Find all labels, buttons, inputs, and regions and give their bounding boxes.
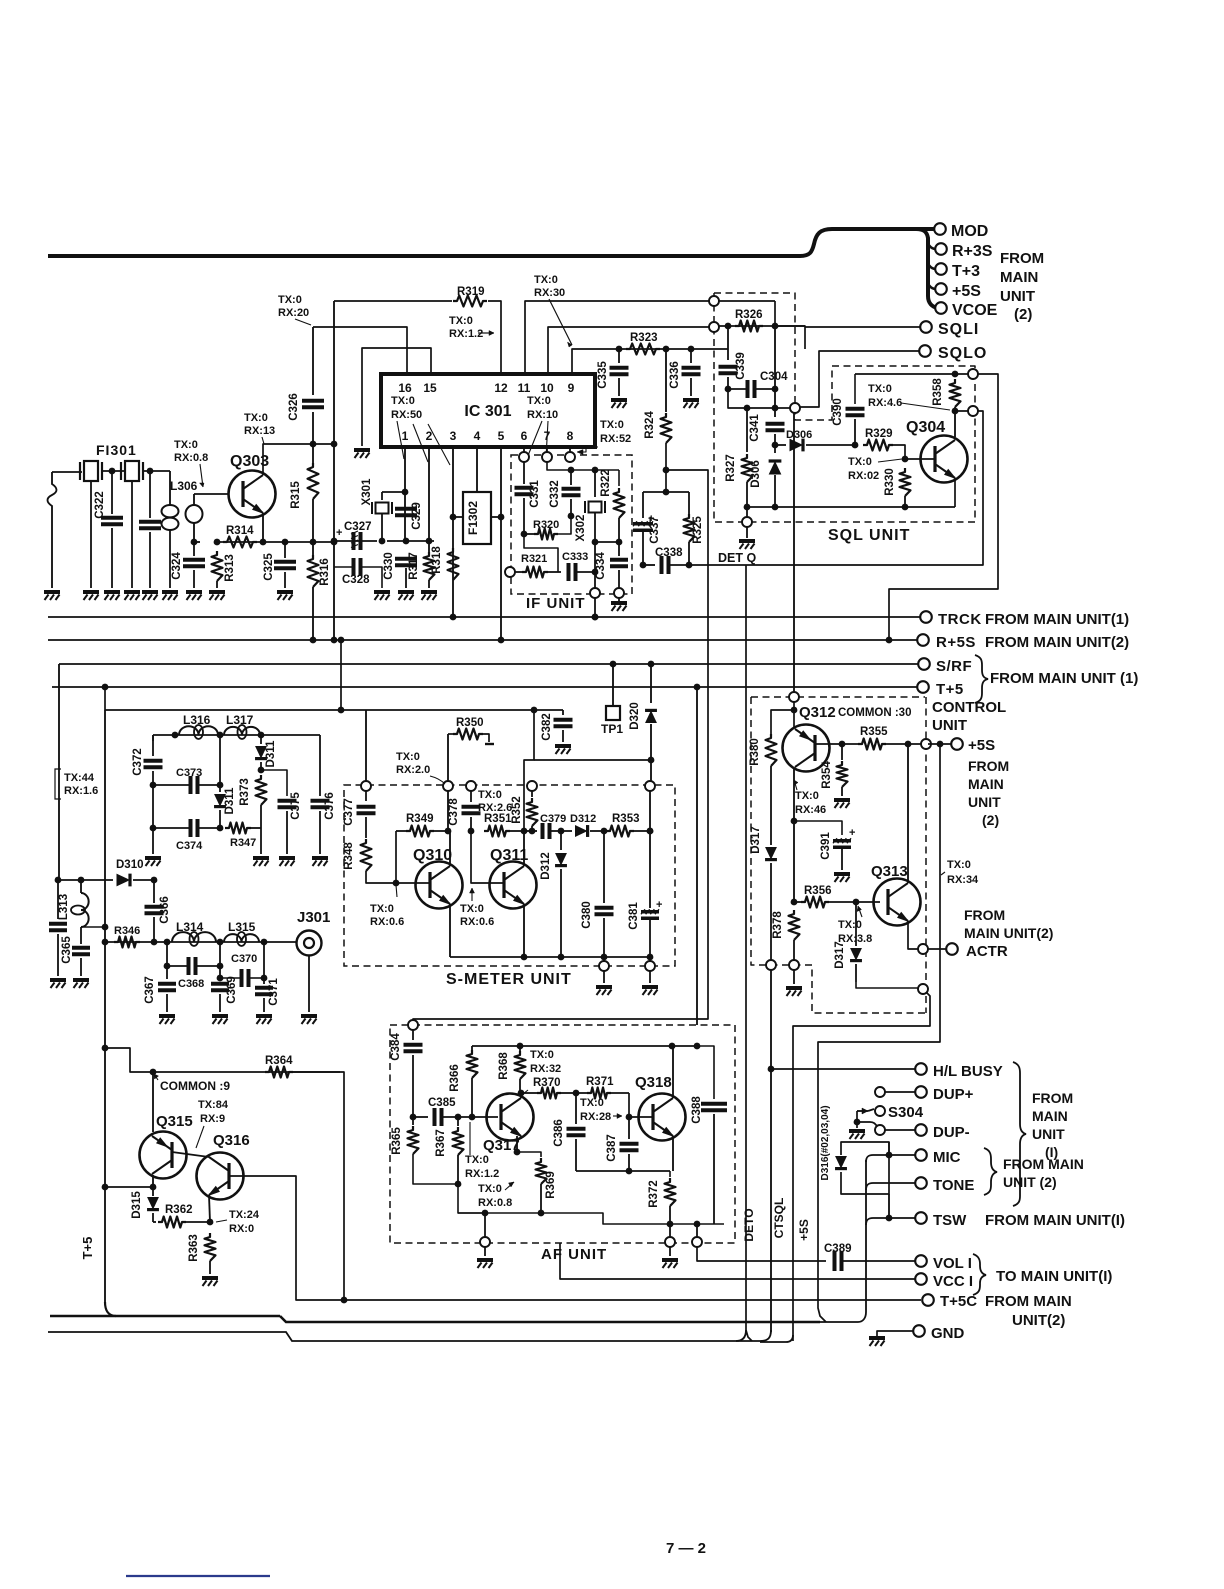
svg-text:COMMON :9: COMMON :9: [160, 1079, 230, 1093]
capacitor C326 on column: [312, 327, 314, 395]
terminal MIC: [915, 1149, 927, 1161]
svg-text:Q313: Q313: [871, 863, 908, 880]
wire X302/R322 bottom row: [595, 541, 619, 543]
svg-text:J301: J301: [297, 909, 330, 926]
svg-text:Q316: Q316: [213, 1132, 250, 1149]
capacitor C335: [618, 349, 620, 363]
resistor R314: [223, 537, 257, 548]
svg-text:S304: S304: [888, 1104, 924, 1121]
terminal ACTR: [946, 943, 958, 955]
capacitor C371: [263, 942, 265, 978]
wire pin7 row to R322: [571, 469, 619, 471]
wire AF bottom rail: [458, 1213, 724, 1224]
ground input: [44, 590, 60, 594]
svg-text:R325: R325: [692, 516, 704, 544]
svg-text:Q310: Q310: [413, 847, 452, 864]
node R353/C381 circle: [645, 781, 655, 791]
wire C391 branch: [794, 821, 842, 835]
wire pin2 column: [428, 447, 430, 541]
resistor R329: [863, 440, 893, 451]
svg-text:S-METER UNIT: S-METER UNIT: [446, 971, 572, 988]
svg-text:C381: C381: [628, 902, 640, 930]
node AF input circle: [408, 1020, 418, 1030]
capacitor C372: [152, 735, 154, 756]
wire DETO vertical: [746, 565, 752, 1341]
svg-text:R362: R362: [165, 1204, 193, 1216]
svg-text:L313: L313: [58, 894, 70, 920]
svg-text:VCOE: VCOE: [952, 302, 998, 319]
svg-text:R358: R358: [932, 378, 944, 406]
wire Q316 base output: [229, 1176, 921, 1300]
capacitor C330: [395, 557, 417, 561]
node bottom circle 1: [603, 957, 605, 962]
inductor L314: [172, 932, 216, 942]
wire Q317 emitter: [516, 1136, 518, 1152]
terminal SQLI: [920, 321, 932, 333]
wire Q310 base: [396, 882, 430, 884]
resistor R326: [735, 321, 763, 332]
diode D306 vertical: [774, 445, 776, 453]
wire Q316 emitter: [209, 1195, 210, 1222]
wire DUP+ pair: [875, 1087, 885, 1097]
capacitor C304: [746, 380, 750, 398]
capacitor C334: [610, 558, 628, 562]
svg-text:Q312: Q312: [799, 704, 836, 721]
svg-text:C389: C389: [824, 1243, 852, 1255]
transistor Q310: [416, 862, 463, 909]
resistor R373: [256, 775, 267, 805]
control unit dashed outline: [751, 696, 925, 698]
diode D317 first: [770, 766, 772, 845]
svg-text:C384: C384: [390, 1033, 402, 1061]
wire T+5 feed AF: [696, 687, 698, 1025]
svg-text:RX:0.8: RX:0.8: [478, 1197, 512, 1209]
wire pin6 to IF: [523, 447, 525, 452]
svg-text:R313: R313: [224, 554, 236, 582]
wire R364 to T+5C: [293, 1072, 344, 1300]
svg-text:R350: R350: [456, 717, 484, 729]
wire R349 riser: [447, 734, 449, 781]
svg-text:X302: X302: [575, 515, 587, 542]
svg-text:IC 301: IC 301: [464, 403, 511, 420]
inductor L306 secondary winding: [193, 494, 195, 505]
svg-text:C375: C375: [290, 792, 302, 820]
wire VOL I: [843, 1260, 915, 1262]
resistor R354: [841, 744, 843, 760]
svg-text:L306: L306: [170, 479, 198, 493]
wire DETO bottom: [736, 1330, 746, 1341]
resistor R322: [618, 470, 620, 486]
svg-text:C371: C371: [268, 978, 280, 1006]
svg-text:C374: C374: [176, 840, 203, 852]
wire IF output column: [594, 542, 596, 589]
resistor R330: [900, 468, 911, 496]
svg-text:COMMON :30: COMMON :30: [838, 707, 911, 719]
svg-text:TX:44: TX:44: [64, 772, 95, 784]
svg-text:C372: C372: [132, 748, 144, 776]
wire Q315 base to Q316 collector: [172, 1152, 209, 1157]
ground GND terminal: [877, 1331, 884, 1336]
capacitor C366: [153, 880, 155, 903]
wire TONE row: [866, 1183, 915, 1190]
AF unit dashed box: [390, 1025, 735, 1243]
svg-text:RX:32: RX:32: [530, 1063, 561, 1075]
svg-text:R320: R320: [533, 519, 559, 531]
svg-text:RX:1.2: RX:1.2: [465, 1168, 499, 1180]
svg-text:R+3S: R+3S: [952, 243, 993, 260]
svg-text:C391: C391: [820, 832, 832, 860]
svg-text:12: 12: [494, 381, 508, 395]
wire GND lead: [884, 1330, 913, 1332]
svg-text:TX:0: TX:0: [465, 1154, 489, 1166]
resistor R351: [484, 826, 510, 837]
node AF bottom circle1: [484, 1213, 486, 1238]
svg-text:R352: R352: [511, 796, 523, 824]
crystal filter FI301 element 1: [84, 461, 98, 481]
svg-text:R373: R373: [239, 778, 251, 806]
svg-text:C329: C329: [411, 502, 423, 530]
svg-text:RX:0.6: RX:0.6: [460, 916, 494, 928]
svg-text:C386: C386: [553, 1119, 565, 1147]
capacitor C365b: [80, 927, 82, 942]
wire branch +5S: [928, 284, 936, 289]
diode D311 first: [219, 735, 221, 785]
node circle bottom control: [918, 984, 928, 994]
wire C378 to Q311 base: [471, 831, 504, 883]
wire between crystals: [102, 470, 124, 472]
transistor Q316: [197, 1153, 244, 1200]
resistor R358: [950, 379, 961, 407]
capacitor C365 left: [57, 880, 59, 919]
svg-text:C335: C335: [597, 361, 609, 389]
leader lines pins 1-3: [397, 421, 404, 459]
wire D311b to C375: [261, 770, 287, 796]
wire pin 11 to top: [525, 301, 709, 374]
wire bottom bend up x865: [818, 1160, 866, 1322]
wire L313 bottom: [81, 926, 105, 928]
svg-text:TX:0: TX:0: [478, 1183, 502, 1195]
wire C386/C387 bottom row: [576, 1170, 670, 1172]
capacitor C380: [603, 831, 605, 903]
svg-text:RX:46: RX:46: [795, 804, 826, 816]
transistor Q312: [783, 725, 830, 772]
svg-text:+5S: +5S: [952, 283, 981, 300]
terminal GND: [913, 1325, 925, 1337]
svg-text:TX:0: TX:0: [580, 1097, 604, 1109]
wire C331 to R321 row: [524, 534, 558, 572]
svg-text:FROM MAIN UNIT (1): FROM MAIN UNIT (1): [990, 670, 1138, 687]
wire D320 to circle: [534, 759, 651, 761]
svg-text:15: 15: [423, 381, 437, 395]
wire CTSQL bottom bend: [760, 1335, 793, 1342]
wire R323 row: [616, 348, 728, 350]
resistor R320: [524, 533, 535, 535]
svg-text:D317: D317: [834, 941, 846, 969]
node pin8 entry: [565, 452, 575, 462]
wire AF input row: [413, 1116, 428, 1118]
svg-text:IF UNIT: IF UNIT: [526, 595, 586, 612]
wire Q313 collector: [907, 744, 909, 883]
node SQL entry upper: [709, 296, 719, 306]
wire T+5 bottom bend: [105, 1302, 116, 1316]
svg-text:R356: R356: [804, 885, 832, 897]
svg-text:RX:28: RX:28: [580, 1111, 611, 1123]
node C378 circle: [466, 781, 476, 791]
transistor Q303: [229, 471, 276, 518]
diode D312 horizontal: [561, 830, 572, 832]
crystal filter FI301 element 2: [125, 461, 139, 481]
svg-text:RX:34: RX:34: [947, 874, 979, 886]
svg-text:FROM: FROM: [968, 758, 1009, 774]
wire Q315 collector feed: [152, 1072, 154, 1132]
svg-text:R324: R324: [644, 411, 656, 439]
svg-text:L317: L317: [226, 713, 254, 727]
svg-text:S/RF: S/RF: [936, 658, 972, 675]
svg-text:TX:0: TX:0: [460, 903, 484, 915]
svg-text:C382: C382: [541, 713, 553, 741]
svg-text:TSW: TSW: [933, 1212, 967, 1229]
svg-text:C370: C370: [231, 953, 257, 965]
wire pin 9 / R323 row: [572, 349, 616, 374]
wire grounded pin 15: [362, 348, 431, 446]
node pin6 entry: [519, 452, 529, 462]
svg-text:9: 9: [568, 381, 575, 395]
svg-text:RX:1.2: RX:1.2: [449, 328, 483, 340]
diode D311 second: [260, 735, 262, 744]
svg-text:TX:0: TX:0: [278, 294, 302, 306]
wire D310 row: [59, 879, 113, 881]
bracket FROM MAIN UNIT (1) right: [1013, 1062, 1026, 1206]
svg-text:RX:0.8: RX:0.8: [174, 452, 208, 464]
terminal T+5C: [922, 1294, 934, 1306]
capacitor C375: [278, 799, 297, 803]
wire branch R+3S: [928, 244, 936, 249]
wire SQL top rail: [855, 373, 973, 375]
diode D312 vertical: [560, 831, 562, 850]
wire T+5 long vertical: [104, 710, 106, 1302]
node AF bottom circle2: [669, 1224, 671, 1238]
node IF output: [590, 588, 600, 598]
wire R+5S bus: [48, 639, 917, 641]
resistor R327: [746, 408, 748, 452]
transistor Q317: [487, 1094, 534, 1141]
wire C381 column: [649, 791, 651, 908]
wire S/RF left drop: [58, 664, 60, 880]
wire R324 bottom to AF unit feed: [413, 443, 708, 1021]
svg-text:R329: R329: [865, 428, 893, 440]
svg-text:1: 1: [402, 429, 409, 443]
ground DET Q: [739, 539, 755, 543]
capacitor C324: [193, 542, 195, 556]
svg-text:C390: C390: [832, 398, 844, 426]
svg-text:FROM MAIN UNIT(2): FROM MAIN UNIT(2): [985, 634, 1129, 651]
svg-text:C365: C365: [61, 936, 73, 964]
svg-text:R317: R317: [408, 552, 420, 580]
svg-text:TX:0: TX:0: [391, 395, 415, 407]
svg-text:C333: C333: [562, 551, 588, 563]
bracket TO MAIN UNIT: [973, 1254, 986, 1295]
svg-text:R315: R315: [290, 481, 302, 509]
svg-text:R327: R327: [725, 454, 737, 482]
capacitor C374: [189, 819, 193, 837]
svg-text:FROM MAIN: FROM MAIN: [985, 1293, 1072, 1310]
bracket FROM MAIN UNIT(2) mic: [984, 1148, 997, 1195]
svg-text:C369: C369: [226, 976, 238, 1004]
wire L316 row: [153, 734, 320, 736]
svg-text:MIC: MIC: [933, 1149, 961, 1166]
svg-text:C332: C332: [549, 480, 561, 508]
wire SQLI: [775, 326, 805, 349]
svg-text:SQL UNIT: SQL UNIT: [828, 527, 910, 544]
inductor L306 primary winding: [169, 471, 171, 505]
svg-text:Q318: Q318: [635, 1074, 672, 1091]
wire COMMON 9 branch: [105, 1048, 340, 1072]
resistor R371: [576, 1092, 587, 1094]
svg-text:TX:0: TX:0: [600, 419, 624, 431]
wire emitter to R372: [669, 1171, 671, 1177]
wire C337/R325 top row: [643, 491, 689, 493]
wire A with R319 to pin 12: [334, 300, 452, 302]
svg-text:RX:4.6: RX:4.6: [868, 397, 902, 409]
svg-text:D311: D311: [224, 787, 236, 814]
svg-text:R349: R349: [406, 813, 434, 825]
terminal +5S: [935, 283, 947, 295]
svg-text:R314: R314: [226, 525, 254, 537]
wire SQL bottom rail: [747, 506, 955, 508]
inductor L317: [224, 727, 260, 735]
wire Q318 collector: [672, 1046, 674, 1098]
svg-text:RX:0.6: RX:0.6: [370, 916, 404, 928]
terminal R+3S: [935, 243, 947, 255]
node R352 circle: [527, 781, 537, 791]
svg-text:D312: D312: [540, 852, 552, 880]
svg-text:11: 11: [518, 381, 531, 395]
transistor Q315: [140, 1132, 187, 1179]
bracket FROM MAIN UNIT (1): [975, 655, 988, 703]
svg-text:D310: D310: [116, 859, 144, 871]
terminal TSW: [915, 1212, 927, 1224]
resistor R347: [225, 823, 251, 834]
wire H/L BUSY: [771, 1068, 915, 1070]
svg-text:R368: R368: [498, 1052, 510, 1080]
capacitor C339: [727, 326, 729, 360]
svg-text:C378: C378: [448, 798, 460, 826]
svg-text:H/L BUSY: H/L BUSY: [933, 1063, 1003, 1080]
svg-text:TX:24: TX:24: [229, 1209, 260, 1221]
wire SQLO: [799, 351, 919, 407]
svg-text:MAIN UNIT(2): MAIN UNIT(2): [964, 925, 1053, 941]
wire Q311 emitter: [523, 904, 525, 957]
svg-text:R321: R321: [521, 553, 547, 565]
svg-text:SQLI: SQLI: [938, 321, 979, 338]
svg-text:C337: C337: [649, 516, 661, 544]
terminal VOL I: [915, 1255, 927, 1267]
capacitor C327 polarized: [352, 532, 356, 550]
svg-text:CONTROL: CONTROL: [932, 699, 1006, 716]
crystal X301: [381, 492, 383, 500]
svg-text:MAIN: MAIN: [1032, 1108, 1068, 1124]
svg-text:T+3: T+3: [952, 263, 980, 280]
svg-text:L314: L314: [176, 920, 204, 934]
leader lines pins 6-7: [527, 421, 542, 458]
resistor R318: [448, 548, 459, 580]
svg-text:RX:10: RX:10: [527, 409, 558, 421]
wire Q312 base row R355: [815, 743, 858, 745]
wire T+5 bus: [52, 686, 917, 688]
resistor R366: [471, 1046, 473, 1050]
svg-text:UNIT (2): UNIT (2): [1003, 1174, 1057, 1190]
diode D320: [650, 664, 652, 703]
svg-text:R367: R367: [435, 1129, 447, 1157]
resistor R316: [308, 555, 319, 587]
resistor R367: [457, 1117, 459, 1126]
wire Q310 collector: [449, 831, 451, 866]
capacitor C325: [284, 542, 286, 558]
svg-text:5: 5: [498, 429, 505, 443]
wire TX:0 RX:20 corner to pin 16: [313, 327, 407, 374]
svg-text:UNIT: UNIT: [1000, 288, 1035, 305]
node AF output circle: [696, 1224, 698, 1238]
wire main vertical column x334: [333, 301, 335, 640]
footer rule: [126, 1575, 270, 1577]
wire TRCK bus: [48, 616, 920, 618]
svg-text:R369: R369: [545, 1171, 557, 1199]
svg-text:VOL I: VOL I: [933, 1255, 972, 1272]
svg-text:C377: C377: [343, 798, 355, 826]
capacitor C389: [833, 1251, 837, 1271]
wire Q313 emitter to ACTR: [908, 921, 918, 949]
wire R358 to circle2: [955, 410, 973, 412]
svg-text:L315: L315: [228, 920, 256, 934]
capacitor C332: [547, 462, 571, 470]
resistor R313: [212, 551, 223, 581]
svg-text:C376: C376: [324, 792, 336, 820]
svg-text:AF UNIT: AF UNIT: [541, 1246, 607, 1263]
svg-text:R365: R365: [391, 1127, 403, 1155]
switch S304: [857, 1110, 868, 1112]
svg-text:DET Q: DET Q: [718, 551, 756, 565]
node ACTR circle on edge: [918, 944, 928, 954]
svg-text:C326: C326: [288, 393, 300, 421]
wire D317b to circle: [856, 982, 918, 988]
svg-text:D315: D315: [131, 1191, 143, 1219]
svg-text:TX:0: TX:0: [449, 315, 473, 327]
svg-text:10: 10: [540, 381, 554, 395]
capacitor C341: [766, 422, 785, 426]
resistor R369: [517, 1152, 541, 1157]
svg-text:R355: R355: [860, 726, 888, 738]
wire input drop with squiggle: [48, 472, 57, 588]
resistor R365: [412, 1117, 414, 1125]
wire Q304 collector: [954, 411, 956, 437]
svg-text:RX:1.6: RX:1.6: [64, 785, 98, 797]
wire T+5 left corner: [51, 686, 53, 688]
svg-text:3: 3: [450, 429, 457, 443]
svg-text:TRCK: TRCK: [938, 611, 982, 628]
wire C338 row / DET Q: [643, 564, 655, 566]
svg-text:L316: L316: [183, 713, 211, 727]
ground C334: [618, 598, 620, 601]
svg-text:CTSQL: CTSQL: [772, 1198, 786, 1239]
resistor R353: [606, 826, 634, 837]
wire Q312 collector column: [793, 769, 795, 902]
wire Q303 emitter: [262, 513, 264, 542]
resistor R346: [114, 937, 140, 948]
svg-text:TX:0: TX:0: [370, 903, 394, 915]
wire pin7 to IF: [546, 447, 548, 452]
wire crystal2 case ground: [131, 482, 133, 588]
capacitor C388: [697, 1046, 714, 1099]
